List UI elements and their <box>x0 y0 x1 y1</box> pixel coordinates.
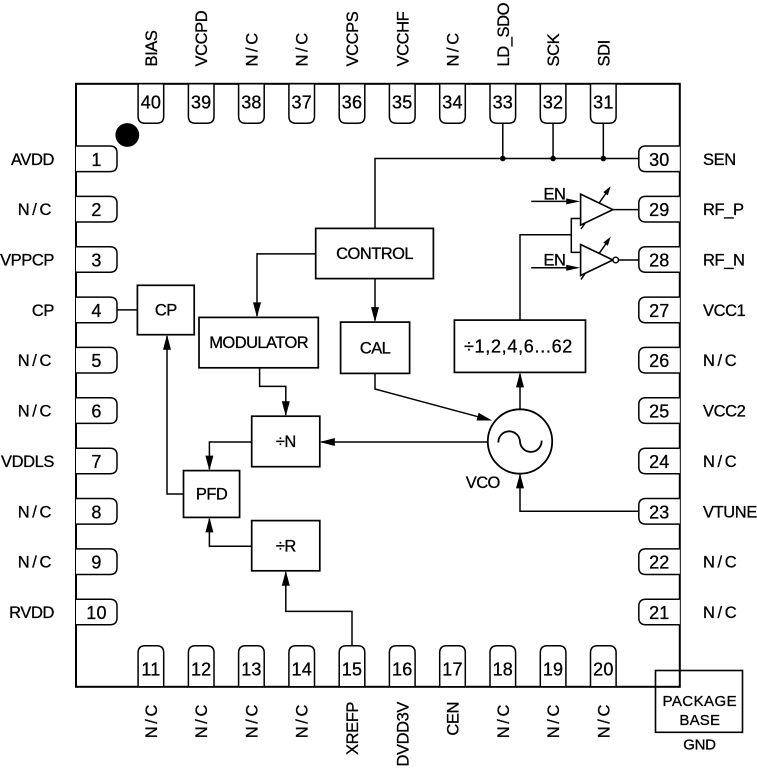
oscillator VCO circle <box>488 409 552 473</box>
svg-text:VCCHF: VCCHF <box>394 11 412 66</box>
pin-1 indicator dot <box>115 123 139 147</box>
svg-text:2: 2 <box>91 200 101 220</box>
pin 28 pad <box>639 247 680 273</box>
svg-text:N/C: N/C <box>294 702 312 738</box>
wire divider R to PFD <box>209 519 251 546</box>
svg-text:33: 33 <box>493 92 513 112</box>
svg-text:31: 31 <box>593 92 613 112</box>
pin 24 pad <box>639 448 680 474</box>
svg-text:CEN: CEN <box>445 702 463 736</box>
svg-text:N/C: N/C <box>18 554 54 572</box>
svg-text:N/C: N/C <box>243 30 261 66</box>
svg-text:N/C: N/C <box>18 201 54 219</box>
pin 14 pad <box>289 646 315 687</box>
pin 3 pad <box>76 247 117 273</box>
pin 23 pad <box>639 499 680 525</box>
svg-text:CP: CP <box>155 302 177 320</box>
VCO sine symbol <box>498 431 541 452</box>
pin 32 pad <box>540 84 566 124</box>
svg-text:38: 38 <box>241 92 261 112</box>
wire CONTROL to CAL <box>374 279 376 321</box>
svg-text:28: 28 <box>649 251 669 271</box>
block divider R <box>252 521 320 571</box>
svg-text:22: 22 <box>649 553 669 573</box>
svg-text:N/C: N/C <box>445 30 463 66</box>
svg-text:6: 6 <box>91 402 101 422</box>
svg-text:RF_N: RF_N <box>703 252 745 270</box>
pin 8 pad <box>76 499 117 525</box>
block CONTROL <box>316 228 434 278</box>
svg-text:VDDLS: VDDLS <box>1 453 54 471</box>
svg-text:N/C: N/C <box>193 702 211 738</box>
svg-text:SEN: SEN <box>703 151 736 169</box>
svg-text:CONTROL: CONTROL <box>336 245 413 263</box>
svg-text:N/C: N/C <box>18 403 54 421</box>
svg-text:21: 21 <box>649 603 669 623</box>
svg-text:÷R: ÷R <box>276 537 297 555</box>
pin 40 pad <box>138 84 164 124</box>
svg-text:16: 16 <box>392 659 412 679</box>
svg-text:17: 17 <box>442 659 462 679</box>
svg-text:13: 13 <box>241 659 261 679</box>
EN line into RF_P buffer <box>531 200 567 202</box>
pin 34 pad <box>440 84 466 124</box>
pin 10 pad <box>76 599 117 625</box>
pin 1 pad <box>76 146 117 172</box>
arrow into VCO bottom <box>516 473 524 488</box>
svg-text:DVDD3V: DVDD3V <box>394 702 412 767</box>
svg-text:20: 20 <box>593 659 613 679</box>
svg-text:15: 15 <box>342 659 362 679</box>
svg-text:34: 34 <box>442 92 462 112</box>
svg-text:30: 30 <box>649 150 669 170</box>
svg-text:11: 11 <box>141 659 160 679</box>
svg-text:GND: GND <box>683 737 716 754</box>
pin 9 pad <box>76 549 117 575</box>
arrow into VCO upper-left <box>477 413 493 421</box>
wire CAL to VCO <box>375 373 490 419</box>
svg-text:VCO: VCO <box>466 474 501 492</box>
svg-text:CP: CP <box>32 302 55 320</box>
svg-text:N/C: N/C <box>595 702 613 738</box>
arrow into divider N top <box>282 401 290 416</box>
svg-text:39: 39 <box>191 92 211 112</box>
wire VTUNE pin 23 to VCO <box>520 475 638 512</box>
pin 2 pad <box>76 196 117 222</box>
svg-text:37: 37 <box>291 92 311 112</box>
chip package outline <box>76 84 680 687</box>
svg-text:CAL: CAL <box>360 339 391 357</box>
pin 25 pad <box>639 398 680 424</box>
pin 18 pad <box>490 646 516 687</box>
block PFD <box>184 471 240 518</box>
pin 6 pad <box>76 398 117 424</box>
pin 4 pad <box>76 297 117 323</box>
wire SEN bus from CONTROL top to pin 30 <box>375 159 638 229</box>
svg-text:EN: EN <box>544 252 566 270</box>
arrow into divider N right <box>320 438 335 446</box>
wire divider N to PFD <box>209 442 251 469</box>
wire MODULATOR to divider N <box>260 368 286 415</box>
svg-text:RF_P: RF_P <box>703 201 744 219</box>
pin 5 pad <box>76 347 117 373</box>
svg-text:N/C: N/C <box>703 453 739 471</box>
svg-text:29: 29 <box>649 200 669 220</box>
svg-text:N/C: N/C <box>143 702 161 738</box>
svg-text:26: 26 <box>649 351 669 371</box>
svg-text:12: 12 <box>191 659 211 679</box>
svg-text:LD_SDO: LD_SDO <box>495 2 513 66</box>
junction dot pin 31 <box>601 156 607 162</box>
svg-text:VCCPS: VCCPS <box>344 11 362 66</box>
svg-text:24: 24 <box>649 452 669 472</box>
svg-text:VTUNE: VTUNE <box>703 503 757 521</box>
svg-text:N/C: N/C <box>703 554 739 572</box>
svg-text:XREFP: XREFP <box>344 702 362 755</box>
svg-text:VCCPD: VCCPD <box>193 10 211 66</box>
pin 39 pad <box>188 84 214 124</box>
svg-text:40: 40 <box>141 92 161 112</box>
wire CONTROL to MODULATOR <box>257 254 316 316</box>
svg-text:AVDD: AVDD <box>11 151 55 169</box>
pin 19 pad <box>540 646 566 687</box>
svg-text:7: 7 <box>91 452 101 472</box>
pin 37 pad <box>289 84 315 124</box>
gain arrow + buffer amp RF_N triangle <box>581 243 607 280</box>
svg-text:5: 5 <box>91 351 101 371</box>
block CP <box>137 285 194 334</box>
svg-text:÷N: ÷N <box>276 433 296 451</box>
svg-text:27: 27 <box>649 301 669 321</box>
wire pin 33 stub to SEN bus <box>502 123 504 158</box>
svg-text:VCC2: VCC2 <box>703 403 746 421</box>
pin 20 pad <box>591 646 617 687</box>
pin 29 pad <box>639 196 680 222</box>
svg-text:N/C: N/C <box>294 30 312 66</box>
wire pin 4 to CP <box>117 309 138 311</box>
block CAL <box>341 322 410 373</box>
block divider 1,2,4,6...62 <box>454 320 585 372</box>
svg-text:N/C: N/C <box>703 352 739 370</box>
svg-text:RVDD: RVDD <box>9 604 54 622</box>
pin 15 pad <box>339 646 365 687</box>
wire XREFP pin 15 to divider R <box>286 572 352 646</box>
junction dot pin 32 <box>550 156 556 162</box>
pin 33 pad <box>490 84 516 124</box>
pin 21 pad <box>639 599 680 625</box>
pin 22 pad <box>639 549 680 575</box>
svg-text:PACKAGE: PACKAGE <box>663 693 738 710</box>
svg-text:10: 10 <box>86 603 106 623</box>
pin 17 pad <box>440 646 466 687</box>
svg-text:9: 9 <box>91 553 101 573</box>
svg-text:N/C: N/C <box>495 702 513 738</box>
svg-text:VCC1: VCC1 <box>703 302 746 320</box>
svg-text:EN: EN <box>544 185 566 203</box>
svg-text:BIAS: BIAS <box>143 30 161 66</box>
svg-text:PFD: PFD <box>196 486 228 504</box>
block MODULATOR <box>199 317 318 367</box>
inverting bubble RF_N <box>613 257 619 263</box>
arrow into CAL <box>371 307 379 322</box>
gain arrow + buffer amp RF_P triangle <box>581 193 607 230</box>
svg-text:36: 36 <box>342 92 362 112</box>
svg-text:4: 4 <box>91 301 101 321</box>
svg-text:1: 1 <box>91 150 101 170</box>
pin 36 pad <box>339 84 365 124</box>
svg-text:SDI: SDI <box>595 40 613 66</box>
wire pin 32 stub to SEN bus <box>552 123 554 158</box>
wire RF_N buffer to pin 28 <box>619 259 639 261</box>
pin 38 pad <box>239 84 265 124</box>
svg-text:BASE: BASE <box>679 712 720 729</box>
arrow into divider 1..62 bottom <box>516 372 524 387</box>
svg-text:N/C: N/C <box>545 702 563 738</box>
pin 35 pad <box>389 84 415 124</box>
junction dot pin 33 <box>500 156 506 162</box>
arrow into MODULATOR <box>253 302 261 317</box>
block divider N <box>252 416 320 467</box>
pin 7 pad <box>76 448 117 474</box>
svg-text:VPPCP: VPPCP <box>0 252 54 270</box>
svg-text:N/C: N/C <box>18 503 54 521</box>
pin 16 pad <box>389 646 415 687</box>
svg-text:SCK: SCK <box>545 33 563 66</box>
arrow into PFD top <box>205 456 213 471</box>
svg-text:N/C: N/C <box>243 702 261 738</box>
svg-text:N/C: N/C <box>703 604 739 622</box>
svg-text:3: 3 <box>91 251 101 271</box>
pin 27 pad <box>639 297 680 323</box>
pin 13 pad <box>239 646 265 687</box>
pin 26 pad <box>639 347 680 373</box>
svg-text:÷1,2,4,6...62: ÷1,2,4,6...62 <box>464 337 573 357</box>
package base paddle box <box>656 671 743 733</box>
svg-text:23: 23 <box>649 502 669 522</box>
svg-text:N/C: N/C <box>18 352 54 370</box>
arrow into divider R bottom <box>282 571 290 586</box>
pin 11 pad <box>138 646 164 687</box>
arrow into CP bottom <box>163 335 171 350</box>
wire VCO to divider N <box>321 441 488 443</box>
wire VCO to divider 1..62 <box>519 374 521 410</box>
arrow into PFD bottom <box>205 517 213 532</box>
svg-text:19: 19 <box>543 659 563 679</box>
svg-text:14: 14 <box>291 659 311 679</box>
pin 31 pad <box>591 84 617 124</box>
pin 30 pad <box>639 146 680 172</box>
wire RF_P buffer to pin 29 <box>613 209 639 211</box>
wire RF buffer input bracket <box>571 219 580 253</box>
EN line into RF_N buffer <box>531 267 567 269</box>
pin 12 pad <box>188 646 214 687</box>
wire divider 1..62 to RF buffers <box>520 235 571 320</box>
wire pin 31 stub to SEN bus <box>602 123 604 158</box>
svg-text:8: 8 <box>91 502 101 522</box>
svg-text:32: 32 <box>543 92 563 112</box>
svg-text:25: 25 <box>649 402 669 422</box>
wire PFD to CP <box>167 336 184 494</box>
svg-text:35: 35 <box>392 92 412 112</box>
svg-text:18: 18 <box>493 659 513 679</box>
svg-text:MODULATOR: MODULATOR <box>209 334 309 352</box>
